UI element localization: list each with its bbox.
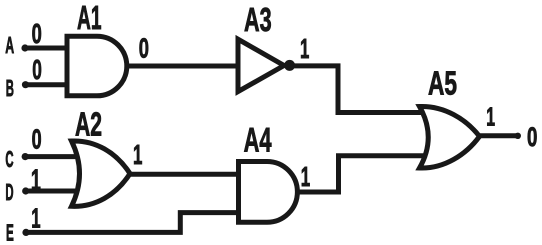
value 1 at A4 output	[301, 161, 310, 192]
label A4	[244, 122, 272, 160]
svg-text:E: E	[6, 220, 14, 245]
label A5	[428, 66, 457, 103]
value 0 on input B	[32, 54, 42, 85]
node B	[22, 81, 29, 88]
svg-text:0: 0	[139, 33, 149, 64]
wire A4 output to A5 lower input	[297, 156, 424, 192]
value 0 at node O	[527, 122, 537, 152]
wire A2 output to A4 upper input	[130, 172, 239, 177]
input label B	[6, 75, 14, 101]
svg-text:A4: A4	[244, 122, 272, 160]
svg-text:1: 1	[486, 102, 495, 132]
svg-text:1: 1	[31, 164, 41, 197]
svg-text:0: 0	[32, 124, 42, 155]
svg-text:D: D	[5, 179, 13, 205]
value 1 on input D	[31, 164, 41, 197]
input label E	[6, 220, 14, 245]
value 0 on input C	[32, 124, 42, 155]
value 0 on input A	[32, 18, 42, 49]
label A3	[244, 2, 272, 39]
node D	[22, 187, 29, 194]
value 0 at A1 output	[139, 33, 149, 64]
svg-text:0: 0	[527, 122, 537, 152]
wire C to A2 input	[25, 154, 79, 159]
input label D	[5, 179, 13, 205]
svg-text:1: 1	[31, 203, 40, 234]
value 1 at A2 output	[133, 139, 142, 170]
wire D to A2 input	[26, 189, 79, 194]
svg-text:A1: A1	[77, 0, 102, 37]
OR gate A2	[72, 141, 131, 206]
svg-text:0: 0	[32, 18, 42, 49]
svg-text:A2: A2	[75, 107, 102, 144]
svg-text:A5: A5	[428, 66, 457, 103]
input label C	[5, 146, 13, 172]
svg-text:A: A	[5, 32, 14, 58]
svg-text:B: B	[6, 75, 14, 101]
node O (output terminal dot)	[515, 133, 521, 139]
inverter A3	[238, 39, 284, 91]
svg-text:1: 1	[133, 139, 142, 170]
svg-text:1: 1	[300, 33, 309, 64]
AND gate A4	[239, 162, 298, 223]
value 1 at A5 output	[486, 102, 495, 132]
label A1	[77, 0, 102, 37]
node A	[21, 44, 28, 51]
wire A to A1 input	[25, 46, 67, 51]
value 1 at A3 output	[300, 33, 309, 64]
value 1 on input E	[31, 203, 40, 234]
svg-text:A3: A3	[244, 2, 272, 39]
node C	[22, 153, 29, 160]
wire A3 output to A5 upper input	[294, 66, 424, 113]
wire A5 output to node O	[478, 133, 518, 138]
svg-text:C: C	[5, 146, 13, 172]
junction dot at A3 output	[284, 60, 295, 71]
OR gate A5	[420, 106, 480, 168]
AND gate A1	[67, 36, 127, 96]
label A2	[75, 107, 102, 144]
node E	[22, 229, 29, 236]
svg-text:1: 1	[301, 161, 310, 192]
input label A	[5, 32, 14, 58]
svg-text:0: 0	[32, 54, 42, 85]
wire A1 output to A3 input	[127, 64, 238, 69]
wire B to A1 input	[26, 82, 68, 87]
wire E to A4 lower input (stepped)	[26, 213, 239, 233]
